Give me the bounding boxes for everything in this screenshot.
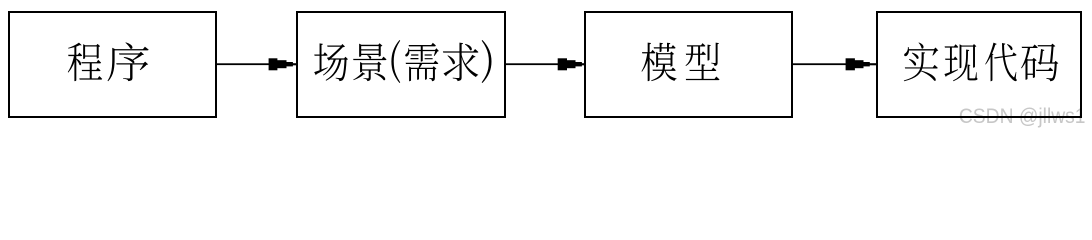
box2 label char 场 (314, 43, 348, 81)
arrow3 box3 to box4 shaft (793, 63, 850, 65)
box1 程序 outline (9, 12, 216, 117)
arrow1 box1 to box2 shaft (217, 63, 273, 65)
box3 label char 模 (641, 43, 676, 82)
box4 label char 现 (944, 44, 977, 81)
box4 label char 代 (985, 43, 1017, 82)
box3 模型 outline (585, 12, 792, 117)
box2 label char 需 (405, 43, 439, 81)
box2 label char paren-right (482, 40, 492, 83)
arrow3 box3 to box4 arrowhead (stepped solid triangle) (846, 58, 877, 70)
box2 label char 景 (353, 43, 386, 81)
box2 label char 求 (443, 43, 478, 81)
arrow1 box1 to box2 arrowhead (stepped solid triangle) (269, 58, 296, 70)
box1 label char 程 (68, 43, 102, 81)
box3 label char 型 (686, 43, 720, 80)
box4 label char 实 (904, 42, 939, 81)
arrow2 box2 to box3 arrowhead (stepped solid triangle) (558, 58, 585, 70)
box4 label char 码 (1021, 44, 1058, 82)
box2 label char paren-left (391, 40, 400, 83)
watermark CSDN @jllws1 (959, 105, 1087, 129)
box4 实现代码 outline (877, 12, 1081, 117)
box1 label char 序 (107, 42, 148, 81)
box2 场景(需求) outline (297, 12, 505, 117)
arrow2 box2 to box3 shaft (506, 63, 562, 65)
